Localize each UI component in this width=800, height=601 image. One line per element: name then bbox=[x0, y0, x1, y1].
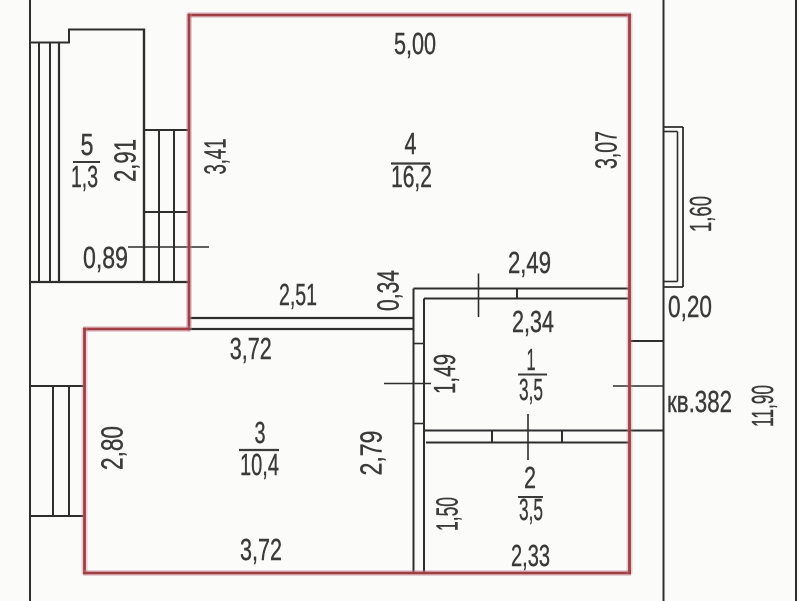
balcony outer bottom edge bbox=[664, 286, 684, 288]
svg-text:5,00: 5,00 bbox=[394, 26, 436, 61]
leader line for kv.382 bbox=[613, 385, 663, 387]
svg-text:2,79: 2,79 bbox=[354, 431, 389, 476]
svg-text:1,3: 1,3 bbox=[71, 159, 98, 194]
svg-text:2,80: 2,80 bbox=[95, 426, 130, 470]
wall: building left outer wall bbox=[29, 0, 31, 601]
wall: room1/room2 wall lower face bbox=[426, 442, 630, 444]
svg-text:0,34: 0,34 bbox=[371, 270, 406, 311]
wall: shaft top edge right of apartment bbox=[630, 340, 664, 342]
red boundary: top edge of room 4 bbox=[188, 12, 631, 18]
tick lower on room3/corridor wall bbox=[414, 423, 425, 425]
dimension 2,79 room 3 right height bbox=[354, 431, 389, 476]
svg-text:3,5: 3,5 bbox=[519, 492, 543, 527]
door jamb left room1/room2 wall bbox=[491, 431, 493, 443]
svg-text:2,51: 2,51 bbox=[279, 277, 317, 312]
wall: room3/corridor wall right face bbox=[423, 299, 425, 574]
balcony inner bottom edge bbox=[664, 281, 678, 283]
leader line for 1,49 bbox=[384, 383, 431, 385]
tick upper on room3/corridor wall bbox=[414, 343, 425, 345]
svg-text:3,72: 3,72 bbox=[240, 532, 282, 567]
svg-text:1,49: 1,49 bbox=[427, 354, 462, 394]
svg-text:3,07: 3,07 bbox=[589, 131, 624, 169]
svg-text:3,41: 3,41 bbox=[198, 139, 233, 175]
fraction rule room 5 label bbox=[73, 161, 100, 163]
svg-text:2,91: 2,91 bbox=[108, 139, 143, 182]
extension tick between 2,49 and 2,34 bbox=[478, 274, 480, 318]
red boundary: right edge of apartment bbox=[627, 14, 633, 575]
svg-text:3: 3 bbox=[255, 415, 266, 450]
dimension 2,80 room 3 height bbox=[95, 426, 130, 470]
fraction rule room 2 label bbox=[518, 496, 543, 498]
svg-text:0,20: 0,20 bbox=[668, 289, 712, 324]
wall: room4 south wall upper face bbox=[414, 288, 630, 290]
fraction rule room 1 label bbox=[518, 374, 547, 376]
wall: room 5 left wall bbox=[58, 43, 60, 283]
dimension 2,91 room 5 height bbox=[108, 139, 143, 182]
svg-text:5: 5 bbox=[81, 127, 94, 162]
svg-text:10,4: 10,4 bbox=[240, 447, 279, 482]
svg-text:11,90: 11,90 bbox=[745, 385, 780, 427]
wall: left window bottom bbox=[29, 515, 84, 517]
stair line 2 bbox=[49, 43, 51, 283]
wall: room 5 right wall bbox=[143, 29, 145, 283]
dimension 0,34 wall step bbox=[371, 270, 406, 311]
wall: left window top bbox=[29, 385, 84, 387]
dimension 1,50 room 2 height bbox=[430, 497, 465, 531]
window mullion B lower-left bbox=[68, 386, 70, 516]
wall: building right outer wall bbox=[795, 0, 797, 601]
wall: building middle wall right of apartment bbox=[663, 0, 665, 601]
dimension 11,90 right side bbox=[745, 385, 780, 427]
svg-text:4: 4 bbox=[405, 126, 417, 161]
wall: step between stair zone and room 5 top bbox=[68, 29, 70, 44]
red boundary: bottom edge of apartment bbox=[83, 570, 631, 576]
balcony outer top edge bbox=[664, 126, 684, 128]
window mid rail between room 5 and room 4 bbox=[144, 211, 188, 213]
wall: room3/corridor wall left face bbox=[413, 289, 415, 574]
balcony inner top edge bbox=[664, 131, 678, 133]
svg-text:2,34: 2,34 bbox=[512, 304, 554, 339]
svg-text:3,72: 3,72 bbox=[230, 331, 272, 366]
red boundary: left edge of room 3 bbox=[82, 328, 88, 575]
svg-text:кв.382: кв.382 bbox=[667, 384, 732, 419]
svg-text:2,33: 2,33 bbox=[511, 538, 550, 573]
svg-text:2,49: 2,49 bbox=[508, 245, 551, 280]
wall: room4/room3 wall lower face bbox=[188, 328, 414, 330]
svg-text:0,89: 0,89 bbox=[83, 240, 128, 275]
fraction rule room 3 label bbox=[239, 449, 279, 451]
door jamb in room4 south wall bbox=[516, 289, 518, 299]
wall: stair zone top edge bbox=[29, 42, 70, 44]
svg-text:2: 2 bbox=[524, 460, 536, 495]
dimension 1,60 balcony bbox=[683, 196, 718, 232]
window mullion 2 between room 5 and room 4 bbox=[173, 130, 175, 282]
dimension 1,49 corridor bbox=[427, 354, 462, 394]
leader line for 0,89 bbox=[128, 246, 209, 248]
balcony outer right edge bbox=[682, 127, 684, 287]
wall: room4 south wall lower face bbox=[424, 298, 630, 300]
red boundary: left edge of room 4 bbox=[186, 14, 192, 331]
wall: room4/room3 wall upper face bbox=[188, 317, 414, 319]
svg-text:3,5: 3,5 bbox=[519, 372, 543, 407]
window mullion 1 between room 5 and room 4 bbox=[158, 130, 160, 282]
svg-text:1,50: 1,50 bbox=[430, 497, 465, 531]
window mullion A lower-left bbox=[52, 386, 54, 516]
red boundary: step between room4 and room3 bbox=[83, 326, 190, 332]
window top rail between room 5 and room 4 bbox=[144, 129, 188, 131]
wall: bottom edge of room5/stair block bbox=[29, 281, 188, 283]
dimension 3,07 right of room 4 bbox=[589, 131, 624, 169]
stair line 1 bbox=[38, 43, 40, 283]
fraction rule room 4 label bbox=[391, 162, 430, 164]
balcony inner right edge bbox=[677, 132, 679, 282]
door jamb right room1/room2 wall bbox=[561, 431, 563, 443]
wall: room1/room2 wall upper face bbox=[423, 430, 663, 432]
svg-text:16,2: 16,2 bbox=[391, 159, 432, 194]
extension tick through room1/room2 wall bbox=[527, 414, 529, 460]
wall: room 5 top wall bbox=[68, 29, 145, 31]
svg-text:1,60: 1,60 bbox=[683, 196, 718, 232]
dimension 3,41 left of room 4 bbox=[198, 139, 233, 175]
